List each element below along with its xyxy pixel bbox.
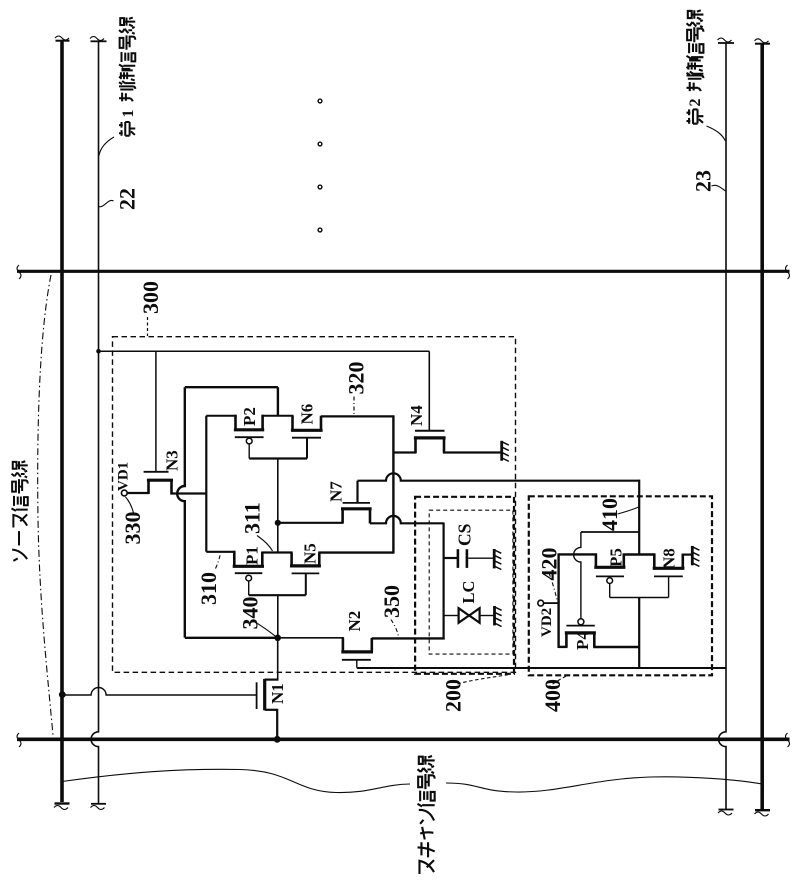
wire: node 340 drop (inverter gates to access transistor) bbox=[277, 595, 279, 638]
svg-text:P5: P5 bbox=[607, 548, 626, 567]
ground symbol at LC bbox=[493, 606, 496, 625]
wire: CS to ground bbox=[468, 557, 494, 559]
wire: VD2 to P5 source (hops P4 gate lead) bbox=[559, 553, 597, 555]
wire: N5 gate lead bbox=[305, 573, 307, 595]
terminal VD1 bbox=[121, 490, 127, 496]
wire: second control signal line 23 (thin vertical, hops over scan bus) bbox=[719, 44, 726, 810]
wire: scan bus right break mark bbox=[786, 733, 790, 747]
node: junction dot N7 source bbox=[275, 520, 281, 526]
wire: N8 drain to ground bbox=[683, 553, 693, 555]
transistor N4 bbox=[414, 437, 417, 453]
wire: LC to ground bbox=[479, 615, 494, 617]
svg-text:200: 200 bbox=[441, 679, 466, 712]
wire: node 340 down to N1 bbox=[277, 638, 279, 680]
svg-text:P4: P4 bbox=[573, 631, 592, 650]
wire: N7 drain wire to LC node (hops output rail) bbox=[370, 516, 444, 523]
wire: P5 gate lead bbox=[609, 584, 611, 598]
wire: P4 gate wire horizontal bbox=[581, 531, 639, 533]
wire: right thick vertical line bbox=[760, 44, 764, 810]
wire: scan signal line (lower horizontal thick bus) bbox=[17, 737, 790, 741]
wire: block 400 output drop to control wire bbox=[638, 598, 640, 669]
wire: cross-coupling drop (inverter1 output to inverter2 gates) bbox=[277, 459, 279, 553]
wire: scan bus left break mark bbox=[17, 733, 21, 747]
leader: second control signal line text bbox=[707, 126, 726, 141]
wire: P2 drain to N6 source bbox=[263, 415, 294, 417]
transistor P1 bbox=[233, 551, 236, 566]
wire: feedback drop to P2 drain rail bbox=[277, 387, 279, 416]
transistor N6 bbox=[291, 416, 294, 431]
leader: label 311 bbox=[257, 536, 273, 552]
wire: upper horizontal bus line bbox=[17, 270, 790, 273]
wire: N1 drain to scan bus bbox=[276, 709, 278, 740]
wire: rail top corner to P2 left stub bbox=[206, 415, 236, 417]
wire: line 22 bottom break mark bbox=[91, 803, 106, 805]
wire: VD2 riser bbox=[557, 553, 559, 648]
svg-text:VD1: VD1 bbox=[116, 462, 132, 491]
wire: N2 gate lead bbox=[356, 660, 358, 668]
svg-text:330: 330 bbox=[120, 512, 145, 545]
leader: label 200 (dashed) bbox=[458, 675, 510, 685]
svg-text:CS: CS bbox=[455, 524, 475, 546]
wire: N4 gate lead bbox=[428, 351, 430, 430]
svg-text:22: 22 bbox=[115, 188, 140, 210]
transistor N8 bbox=[653, 554, 656, 569]
node: junction dot on source line bbox=[59, 691, 66, 698]
wire: CS branch bbox=[444, 557, 458, 559]
svg-text:N6: N6 bbox=[298, 404, 317, 425]
node: junction dot on scan bus bbox=[274, 736, 281, 743]
transistor N5 bbox=[290, 553, 293, 566]
svg-text:1: 1 bbox=[120, 110, 137, 118]
leader: label 310 (dash-dot) bbox=[216, 554, 221, 569]
wire: line 23 top break mark bbox=[718, 42, 734, 44]
wire: right thick line bottom break mark bbox=[755, 809, 770, 811]
transistor P4 bbox=[578, 619, 584, 625]
transistor P5 bbox=[595, 554, 598, 568]
svg-text:N5: N5 bbox=[301, 543, 320, 564]
wire: vertical rail linking P2 source and P1 source bbox=[205, 416, 207, 552]
wire: N3 gate lead bbox=[155, 351, 157, 472]
svg-text:N4: N4 bbox=[407, 405, 426, 426]
wire: P2/N6 gate cross-coupling wire bbox=[249, 457, 307, 459]
svg-text:N8: N8 bbox=[660, 548, 679, 569]
wire: source line bottom break mark bbox=[55, 802, 70, 804]
leader: label 350 (dash-dot) bbox=[391, 620, 399, 637]
svg-text:N1: N1 bbox=[268, 683, 287, 704]
svg-text:340: 340 bbox=[238, 597, 263, 630]
wire: N6 drain to output rail bbox=[321, 415, 395, 417]
wire: node 340 to N2 source bbox=[278, 637, 344, 639]
svg-text:311: 311 bbox=[240, 502, 265, 534]
leader: label 340 bbox=[258, 624, 276, 637]
wire: N8 gate riser bbox=[668, 576, 670, 597]
svg-text:350: 350 bbox=[379, 585, 404, 618]
wire: source line top break mark bbox=[56, 40, 70, 42]
wire: rail bottom corner to N5 drain bbox=[318, 551, 393, 553]
svg-text:400: 400 bbox=[540, 679, 565, 712]
wire: P5/N8 gate wire bbox=[610, 597, 669, 599]
ground symbol at N8 bbox=[691, 546, 694, 565]
transistor P2 bbox=[234, 415, 237, 430]
wire: inverter output rail (N6/N4/N5 junctions) bbox=[392, 416, 394, 554]
wire: VD1 to N3 source bbox=[127, 492, 149, 494]
svg-text:N7: N7 bbox=[327, 481, 346, 502]
wire: N6 gate lead bbox=[306, 438, 308, 459]
leader: scan signal line wavy curve right part bbox=[446, 777, 762, 792]
wire: 410 vertical (latch output into block 400) bbox=[638, 480, 640, 555]
liquid crystal element LC (bowtie) bbox=[459, 608, 469, 623]
wire: source signal line (thick vertical bus at x=62) bbox=[60, 41, 64, 802]
label: second control signal line (vertical Japanese text) bbox=[687, 10, 705, 123]
terminal VD2 bbox=[538, 600, 544, 606]
wire: N7 gate wire to block 400 (hops output rail) bbox=[358, 473, 640, 480]
wire: N3 drain to rail bbox=[171, 492, 207, 494]
svg-text:2: 2 bbox=[687, 99, 704, 107]
leader: label 420 (dash-dot) bbox=[549, 573, 557, 600]
label: first control signal line (vertical Japanese text) bbox=[119, 18, 137, 136]
wire: upper bus right break mark bbox=[786, 265, 790, 279]
wire: N7 gate lead bbox=[356, 481, 358, 503]
capacitor CS bbox=[457, 549, 460, 568]
ground symbol at CS bbox=[493, 549, 496, 568]
wire: N1 gate wire to source line (hops line 22) bbox=[63, 688, 257, 695]
box: display element region 200 (bold dashed) bbox=[415, 497, 514, 674]
wire: P1/N5 gate wire bbox=[249, 594, 306, 596]
svg-text:23: 23 bbox=[691, 170, 716, 192]
box: pixel circuit region 300 (dashed) bbox=[113, 337, 516, 673]
wire: N4 drain to ground bbox=[443, 451, 502, 453]
ground symbol at N4 bbox=[500, 441, 503, 461]
leader: source signal line label curve (dash-dot) bbox=[38, 275, 53, 735]
svg-text:420: 420 bbox=[537, 548, 562, 581]
wire: pixel node riser (N7 drain down to N2 drain) bbox=[443, 523, 445, 640]
svg-text:N3: N3 bbox=[163, 450, 182, 471]
leader: label 300 (dotted) bbox=[147, 317, 149, 336]
wire: upper bus left break mark bbox=[17, 265, 21, 279]
leader: scan signal line wavy curve left part bbox=[62, 769, 410, 792]
transistor N3 bbox=[147, 481, 150, 494]
wire: control line 22 feed into pixel (gate line of N3/N4) bbox=[99, 350, 430, 352]
svg-text:N2: N2 bbox=[345, 611, 364, 632]
leader: first control signal line text bbox=[99, 137, 114, 156]
wire: P1 drain to N5 source (node 311) bbox=[262, 551, 292, 553]
wire: latch feedback loop left edge (hops over VD1 wire) bbox=[177, 387, 185, 637]
svg-text:300: 300 bbox=[138, 281, 163, 314]
leader: label 400 (dashed) bbox=[548, 676, 567, 688]
wire: N2 drain to pixel node bbox=[372, 637, 445, 639]
wire: right thick line top break mark bbox=[755, 43, 770, 45]
label: source signal line (vertical Japanese text) bbox=[12, 461, 28, 561]
wire: first control signal line 22 (thin vertical, hops over scan bus) bbox=[91, 42, 98, 804]
svg-text:310: 310 bbox=[196, 572, 221, 605]
svg-text:410: 410 bbox=[597, 498, 622, 531]
box: inner element box inside 200 (light dashed) bbox=[429, 510, 513, 654]
svg-text:LC: LC bbox=[459, 581, 478, 604]
leader: label 22 bbox=[99, 200, 114, 206]
transistor N2 bbox=[342, 638, 345, 652]
svg-text:320: 320 bbox=[344, 362, 369, 395]
transistor N7 bbox=[341, 509, 344, 523]
leader: label 330 bbox=[126, 497, 134, 513]
node: junction on line 22 bbox=[96, 349, 101, 354]
wire: line 23 bottom break mark bbox=[719, 809, 734, 811]
svg-text:P1: P1 bbox=[243, 546, 262, 565]
wire: P4 drain to output bbox=[593, 646, 639, 648]
label: scan signal line (vertical Japanese text) bbox=[418, 756, 435, 874]
box: buffer region 400 (bold dashed) bbox=[529, 496, 712, 675]
wire: latch feedback loop bottom edge bbox=[185, 637, 276, 639]
svg-text:P2: P2 bbox=[240, 407, 259, 426]
wire: N2 gate wire to control line 23 bbox=[357, 667, 726, 669]
leader: label 23 bbox=[712, 185, 726, 191]
wire: latch feedback loop top edge bbox=[185, 386, 278, 388]
svg-text:VD2: VD2 bbox=[539, 608, 555, 637]
wire: VD2 lead bbox=[544, 602, 560, 604]
wire: N7 source wire bbox=[278, 522, 344, 524]
transistor N1 (access transistor, vertical) bbox=[265, 678, 279, 680]
wire: rail bottom corner to P1 left stub bbox=[206, 551, 235, 553]
leader: label 410 bbox=[618, 507, 639, 514]
node: ellipsis dots column bbox=[318, 99, 322, 103]
wire: P5/N8 drain junction wire bbox=[623, 553, 656, 555]
wire: P4 source to VD2 riser bbox=[559, 646, 568, 648]
wire: rail to N4 source bbox=[393, 451, 416, 453]
leader: label 320 (dash-dot) bbox=[353, 397, 355, 416]
wire: line 22 top break mark bbox=[91, 40, 107, 42]
wire: LC branch bbox=[444, 615, 458, 617]
node: junction dot 340 bbox=[274, 635, 281, 642]
